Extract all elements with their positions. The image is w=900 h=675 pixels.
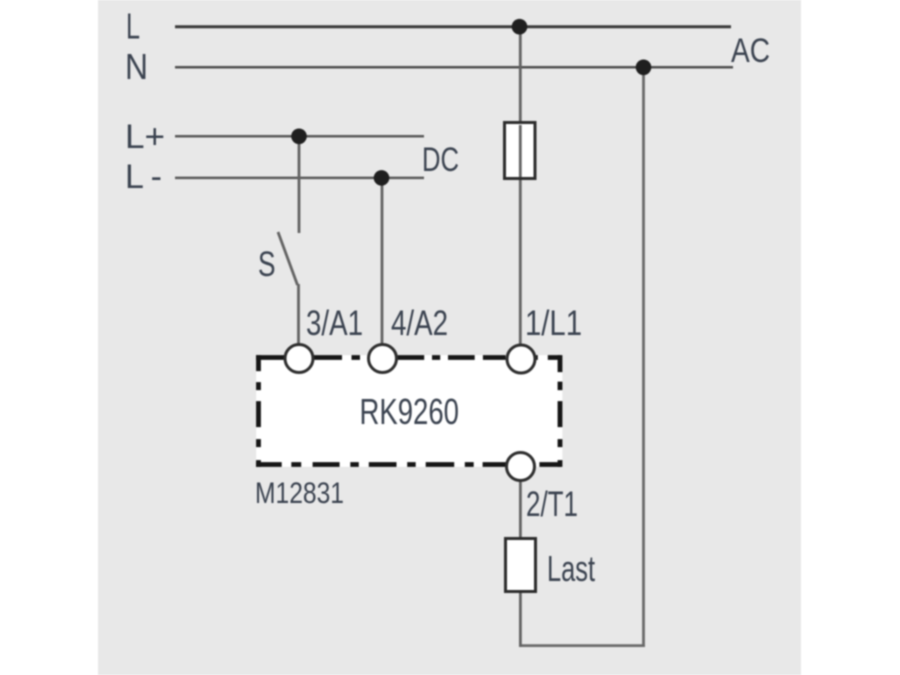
svg-text:1/L1: 1/L1 [525,304,582,343]
svg-text:2/T1: 2/T1 [526,485,578,524]
svg-text:M12831: M12831 [255,477,344,510]
svg-text:L+: L+ [125,118,165,156]
svg-text:N: N [125,46,148,87]
svg-text:L -: L - [125,158,162,196]
svg-text:4/A2: 4/A2 [391,304,448,343]
svg-text:RK9260: RK9260 [360,391,460,432]
svg-text:S: S [258,245,276,284]
svg-text:DC: DC [422,141,459,179]
svg-text:Last: Last [547,548,595,589]
svg-text:AC: AC [731,32,770,70]
svg-text:3/A1: 3/A1 [306,304,363,343]
svg-text:L: L [126,6,140,47]
